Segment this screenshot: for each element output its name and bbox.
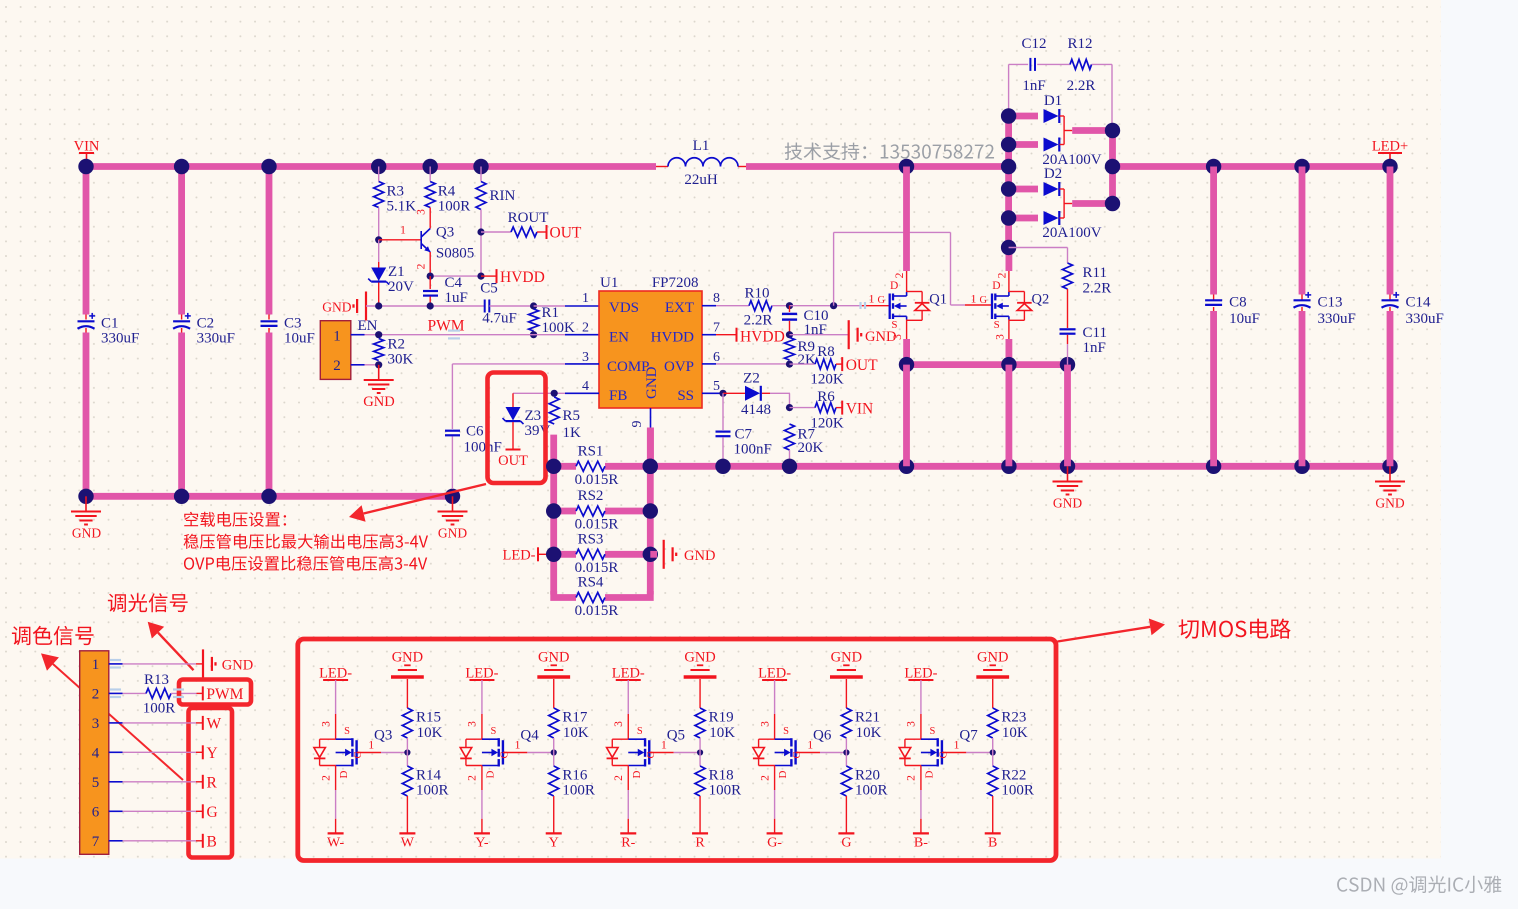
svg-text:100nF: 100nF <box>734 442 772 458</box>
junction R9-R8 node <box>786 361 793 368</box>
wire P2 pin5 stub <box>109 781 123 783</box>
svg-text:3: 3 <box>467 721 479 727</box>
svg-text:B: B <box>207 833 217 850</box>
svg-text:D: D <box>631 770 643 778</box>
junction gate node Y <box>551 749 557 755</box>
svg-text:1K: 1K <box>563 425 582 441</box>
wire pin8 EXT net <box>702 305 716 307</box>
wire Q1 drain column <box>903 167 910 272</box>
svg-text:HVDD: HVDD <box>740 329 785 346</box>
wire drain to port G- <box>774 766 776 791</box>
junction gate node B <box>990 749 996 755</box>
junction bootstrap tap <box>830 302 837 309</box>
svg-text:2.2R: 2.2R <box>744 313 773 329</box>
resistor R16 <box>549 766 559 796</box>
svg-text:GND: GND <box>977 650 1008 666</box>
svg-text:GND: GND <box>438 526 467 541</box>
diode D1 lower <box>1009 141 1038 148</box>
wire pin6 OVP net <box>702 363 716 365</box>
svg-text:2: 2 <box>416 263 428 269</box>
svg-text:D2: D2 <box>1044 166 1062 182</box>
wire Q2 source to OUT bus <box>1006 339 1013 365</box>
port G bottom <box>838 832 854 834</box>
ground GND below OUT bus column <box>1067 466 1069 481</box>
wire snubber tap <box>1008 64 1010 116</box>
ground GND below C6 node <box>452 496 454 511</box>
svg-text:2: 2 <box>613 775 625 781</box>
svg-text:R2: R2 <box>388 337 406 353</box>
port G- bottom <box>767 832 783 834</box>
junction R1-EN node <box>530 331 537 338</box>
resistor R9 <box>785 338 795 361</box>
svg-text:10uF: 10uF <box>1229 311 1260 327</box>
wire RS right column <box>647 428 654 595</box>
resistor RS1 <box>554 463 576 470</box>
svg-text:330uF: 330uF <box>197 331 235 347</box>
wire C2 column <box>178 167 185 315</box>
svg-text:L1: L1 <box>693 138 710 154</box>
wire R23 to gate node <box>992 738 994 753</box>
svg-text:GND: GND <box>222 658 253 674</box>
wire R14 to port W <box>406 796 408 833</box>
svg-text:2: 2 <box>92 687 100 703</box>
port R- bottom <box>620 832 636 834</box>
capacitor C3 <box>261 320 278 322</box>
resistor R18 <box>695 766 705 796</box>
svg-text:G: G <box>207 804 218 821</box>
svg-text:FB: FB <box>609 388 627 404</box>
svg-text:FP7208: FP7208 <box>652 275 699 291</box>
svg-text:1: 1 <box>92 657 100 673</box>
wire P2 pin5 net R <box>123 781 197 783</box>
junction C5-R1 node <box>530 302 537 309</box>
svg-text:GND: GND <box>831 650 862 666</box>
junction C4 gnd node <box>427 302 434 309</box>
wire LED- to Q6 <box>774 680 776 714</box>
junction diode right column <box>1105 123 1120 138</box>
junction C10 tap <box>786 302 793 309</box>
svg-text:R: R <box>207 774 218 791</box>
svg-text:100nF: 100nF <box>464 440 502 456</box>
annotation dimming arrow <box>158 633 194 671</box>
port W- bottom <box>328 832 344 834</box>
svg-text:RS4: RS4 <box>578 575 604 591</box>
svg-text:S: S <box>491 726 497 737</box>
resistor R7 <box>785 424 795 450</box>
resistor R15 <box>402 708 412 738</box>
selection marks near C5 <box>110 302 865 697</box>
ground GND below R2 <box>378 365 380 380</box>
svg-text:HVDD: HVDD <box>500 269 545 286</box>
svg-text:5: 5 <box>713 379 720 394</box>
transistor Q3 NMOS switch <box>314 721 364 781</box>
svg-text:120K: 120K <box>810 416 844 432</box>
wire bottom GND rail right <box>650 463 1390 470</box>
wire gate node to R20 <box>845 753 847 767</box>
svg-text:2: 2 <box>894 272 906 278</box>
svg-text:Y: Y <box>549 836 559 851</box>
wire bootstrap to Q2 gate <box>833 232 835 305</box>
capacitor C6 <box>445 430 460 432</box>
wire C14 column <box>1387 167 1394 295</box>
ground GND tap P2 pin1 <box>202 649 204 678</box>
port HVDD pin7 <box>736 328 738 342</box>
svg-text:3: 3 <box>582 350 589 365</box>
svg-text:Q5: Q5 <box>667 728 685 744</box>
port Y <box>202 745 204 759</box>
diode Z2 4148 <box>723 392 745 394</box>
svg-text:EN: EN <box>358 318 378 334</box>
svg-text:C4: C4 <box>445 275 463 291</box>
svg-text:7: 7 <box>713 321 720 336</box>
wire P2 pin1 stub <box>109 663 123 665</box>
svg-text:Q1: Q1 <box>929 292 947 308</box>
wire pin5 SS net <box>702 392 723 394</box>
junction SS node <box>719 390 726 397</box>
svg-text:100R: 100R <box>1001 783 1034 799</box>
resistor R5 <box>549 397 559 424</box>
svg-text:3: 3 <box>613 721 625 727</box>
port Y bottom <box>546 832 562 834</box>
wire P2 pin4 net Y <box>123 751 197 753</box>
resistor RS2 <box>554 508 576 515</box>
resistor R11 <box>1063 263 1073 289</box>
svg-text:Q4: Q4 <box>520 728 539 744</box>
svg-text:100R: 100R <box>709 783 742 799</box>
wire OUT bus columns down <box>903 365 910 467</box>
svg-text:GND: GND <box>684 548 715 564</box>
resistor R12 <box>1070 59 1092 69</box>
annotation qie MOS text <box>1179 618 1291 638</box>
svg-text:3: 3 <box>320 721 332 727</box>
wire gate net Q1 <box>790 305 863 307</box>
transistor Q6 NMOS switch <box>753 721 803 781</box>
junction FB-R5 node <box>551 390 558 397</box>
svg-text:3: 3 <box>416 209 428 215</box>
svg-text:2: 2 <box>996 272 1008 278</box>
port B <box>202 834 204 848</box>
junction gate node R <box>697 749 703 755</box>
svg-text:C14: C14 <box>1406 295 1432 311</box>
svg-text:GND: GND <box>1375 496 1404 511</box>
svg-text:R17: R17 <box>562 710 588 726</box>
junction diode ladder <box>1001 108 1016 123</box>
svg-text:1uF: 1uF <box>445 290 468 306</box>
port HVDD top <box>481 275 497 277</box>
junction bottom rail nodes <box>643 459 658 474</box>
wire R16 to port Y <box>553 796 555 833</box>
wire LED- to Q5 <box>627 680 629 714</box>
svg-text:100R: 100R <box>416 783 449 799</box>
svg-text:S: S <box>891 319 897 331</box>
wire P2 pin2 stub <box>109 692 123 694</box>
svg-text:OUT: OUT <box>550 225 582 242</box>
svg-text:VIN: VIN <box>846 400 874 417</box>
svg-text:1: 1 <box>400 225 406 237</box>
svg-text:D: D <box>338 770 350 778</box>
svg-text:R22: R22 <box>1001 768 1026 784</box>
transistor Q3 S0805 NPN <box>429 208 431 229</box>
transistor Q7 NMOS switch <box>899 721 949 781</box>
wire R19 to gate node <box>699 738 701 753</box>
svg-text:3: 3 <box>92 716 100 732</box>
svg-text:0.015R: 0.015R <box>575 517 619 533</box>
wire R22 to port B <box>992 796 994 833</box>
port G <box>202 804 204 818</box>
junction C10-R9 node <box>786 331 793 338</box>
wire D2 cathode to right column <box>1064 203 1072 205</box>
wire Q3 emitter to HVDD <box>430 275 481 277</box>
svg-text:LED-: LED- <box>502 548 535 564</box>
svg-text:B-: B- <box>914 836 928 851</box>
op-amp U1 FP7208 controller IC <box>599 291 702 408</box>
wire C6 column <box>451 364 453 429</box>
wire bottom-left GND rail <box>86 493 453 500</box>
svg-text:G: G <box>878 295 886 306</box>
annotation red box around PWM <box>179 680 251 705</box>
svg-text:R23: R23 <box>1001 710 1026 726</box>
capacitor C12 <box>1009 63 1029 65</box>
transistor Q2 NMOS <box>992 271 1032 340</box>
svg-text:100R: 100R <box>438 199 471 215</box>
capacitor C10 <box>789 306 791 312</box>
junction Z1 gnd node <box>375 302 382 309</box>
svg-text:2: 2 <box>759 775 771 781</box>
svg-text:Y-: Y- <box>475 836 489 851</box>
svg-text:GND: GND <box>322 300 351 315</box>
port W <box>202 716 204 730</box>
gate wire of Q4 <box>503 752 527 754</box>
junction bottom-left rail <box>78 489 93 504</box>
svg-text:S: S <box>929 726 935 737</box>
wire top rail right segment <box>1113 163 1391 170</box>
svg-text:100R: 100R <box>143 701 176 717</box>
svg-text:C6: C6 <box>466 424 484 440</box>
svg-text:7: 7 <box>92 834 100 850</box>
port B bottom <box>985 832 1001 834</box>
svg-text:8: 8 <box>713 291 720 306</box>
transistor Q4 NMOS switch <box>460 721 510 781</box>
junction OUT bus <box>899 357 914 372</box>
gate wire of Q5 <box>649 752 673 754</box>
svg-text:EXT: EXT <box>665 300 694 316</box>
svg-text:C2: C2 <box>197 316 215 332</box>
svg-text:4148: 4148 <box>741 402 771 418</box>
svg-text:RS3: RS3 <box>578 531 604 547</box>
svg-text:RS1: RS1 <box>578 443 604 459</box>
wire GND to R17 <box>553 679 555 708</box>
svg-text:C13: C13 <box>1318 295 1343 311</box>
svg-text:R6: R6 <box>817 389 835 405</box>
svg-text:R15: R15 <box>416 710 441 726</box>
resistor RS3 <box>554 551 576 558</box>
wire R15 to gate node <box>406 738 408 753</box>
annotation qie MOS arrow <box>1058 627 1151 642</box>
svg-text:0.015R: 0.015R <box>575 472 619 488</box>
svg-text:G: G <box>792 751 803 759</box>
wire RS4 bottom corners <box>554 591 576 598</box>
svg-text:2: 2 <box>320 775 332 781</box>
svg-text:G: G <box>980 295 988 306</box>
wire C1 column <box>83 167 90 315</box>
svg-text:C11: C11 <box>1083 325 1107 341</box>
svg-text:RS2: RS2 <box>578 488 604 504</box>
wire P2 pin3 net W <box>123 722 197 724</box>
wire drain to port Y- <box>481 766 483 791</box>
transistor Q5 NMOS switch <box>607 721 657 781</box>
wire C13 column <box>1299 167 1306 295</box>
svg-text:OUT: OUT <box>498 453 528 469</box>
ground GND tap right of C10 <box>848 320 850 349</box>
wire LED- to Q3 <box>335 680 337 714</box>
svg-text:Q3: Q3 <box>436 225 454 241</box>
resistor R22 <box>988 766 998 796</box>
svg-text:10K: 10K <box>563 725 589 741</box>
svg-text:C7: C7 <box>735 427 753 443</box>
connector P2 7-pin header <box>80 651 109 855</box>
wire diode right column <box>1109 131 1116 204</box>
wire R20 to port G <box>845 796 847 833</box>
junction gate node W <box>404 749 410 755</box>
resistor RIN <box>480 167 482 182</box>
annotation no-load text line1 <box>184 512 286 527</box>
gate wire of Q6 <box>796 752 820 754</box>
wire EN pin1 <box>351 334 365 336</box>
resistor ROUT and port OUT <box>481 231 511 233</box>
capacitor C2 <box>173 320 190 322</box>
svg-text:Q2: Q2 <box>1032 292 1050 308</box>
resistor R2 <box>374 339 384 361</box>
junction RS rows right <box>643 459 658 474</box>
wire LED- to Q7 <box>920 680 922 714</box>
resistor R13 <box>123 692 147 694</box>
wire R21 to gate node <box>845 738 847 753</box>
annotation red box around Z3 <box>488 373 546 484</box>
junction emitter node <box>427 273 434 280</box>
port OUT below Z3 <box>506 449 521 451</box>
svg-text:S: S <box>637 726 643 737</box>
svg-text:3: 3 <box>759 721 771 727</box>
wire diode ladder column <box>1005 116 1012 248</box>
svg-text:OVP: OVP <box>664 359 694 375</box>
svg-text:EN: EN <box>609 330 629 346</box>
annotation color arrow <box>53 664 183 780</box>
svg-text:22uH: 22uH <box>684 172 718 188</box>
wire C3 column <box>266 167 273 315</box>
svg-text:10K: 10K <box>856 725 882 741</box>
wire gate node to R14 <box>406 753 408 767</box>
wire drain to port W- <box>335 766 337 791</box>
junction gate node G <box>843 749 849 755</box>
svg-text:1nF: 1nF <box>1022 78 1045 94</box>
svg-text:GND: GND <box>684 650 715 666</box>
port R bottom <box>692 832 708 834</box>
svg-text:R13: R13 <box>144 672 169 688</box>
wire P2 pin3 stub <box>109 722 123 724</box>
svg-text:C5: C5 <box>480 281 498 297</box>
resistor R20 <box>841 766 851 796</box>
svg-text:D: D <box>992 280 1000 292</box>
svg-text:D: D <box>484 770 496 778</box>
svg-text:OUT: OUT <box>846 357 878 374</box>
svg-text:R10: R10 <box>744 286 769 302</box>
svg-text:G: G <box>499 751 510 759</box>
svg-text:R12: R12 <box>1067 36 1092 52</box>
svg-text:1: 1 <box>333 329 341 345</box>
svg-text:100R: 100R <box>562 783 595 799</box>
svg-text:GND: GND <box>1053 496 1082 511</box>
svg-text:100K: 100K <box>542 320 576 336</box>
annotation red box around WYRGB ports <box>189 708 233 858</box>
svg-text:2: 2 <box>582 321 589 336</box>
svg-text:Z2: Z2 <box>743 371 760 387</box>
capacitor C7 <box>722 393 724 430</box>
svg-text:1nF: 1nF <box>1083 340 1106 356</box>
wire drain to port B- <box>920 766 922 791</box>
wire P2 pin7 stub <box>109 840 123 842</box>
svg-text:RIN: RIN <box>490 188 516 204</box>
svg-text:10K: 10K <box>417 725 443 741</box>
wire P2 pin4 stub <box>109 751 123 753</box>
port Y- bottom <box>474 832 490 834</box>
svg-text:W: W <box>207 715 222 732</box>
svg-text:20A100V: 20A100V <box>1042 225 1101 241</box>
svg-text:U1: U1 <box>600 275 618 291</box>
wire top rail mid segment <box>746 163 1009 170</box>
svg-text:10uF: 10uF <box>284 331 315 347</box>
resistor R17 <box>549 708 559 738</box>
svg-text:C3: C3 <box>284 316 302 332</box>
svg-text:G: G <box>938 751 949 759</box>
svg-text:VDS: VDS <box>609 300 639 316</box>
wire top VIN rail left segment <box>86 163 656 170</box>
svg-text:SS: SS <box>677 388 694 404</box>
resistor R10 <box>749 301 772 311</box>
svg-text:3: 3 <box>994 334 1006 340</box>
svg-text:4: 4 <box>92 746 100 762</box>
gate wire of Q3 <box>357 752 381 754</box>
svg-text:Q6: Q6 <box>813 728 832 744</box>
svg-text:B: B <box>988 836 997 851</box>
annotation red box MOS circuits <box>298 639 1056 861</box>
svg-text:D1: D1 <box>1044 93 1062 109</box>
svg-text:Z1: Z1 <box>388 264 405 280</box>
svg-text:W: W <box>401 836 415 851</box>
svg-text:R18: R18 <box>709 768 734 784</box>
pin9 GND wire <box>650 408 652 428</box>
svg-text:G: G <box>646 751 657 759</box>
svg-text:330uF: 330uF <box>1406 311 1444 327</box>
svg-text:5.1K: 5.1K <box>387 199 417 215</box>
resistor R6 and port VIN <box>790 407 816 409</box>
junction R2 bottom node <box>375 361 382 368</box>
capacitor C11 <box>1060 328 1076 330</box>
wire GND to R21 <box>845 679 847 708</box>
wire LED- to Q4 <box>481 680 483 714</box>
wire Q2 drain stub <box>1006 248 1013 272</box>
resistor R21 <box>841 708 851 738</box>
resistor R4 <box>429 167 431 182</box>
wire GND to R15 <box>406 679 408 708</box>
wire R11 tap <box>1009 247 1068 249</box>
svg-text:R3: R3 <box>387 184 405 200</box>
svg-text:GND: GND <box>363 394 394 410</box>
svg-text:R21: R21 <box>855 710 880 726</box>
svg-text:20K: 20K <box>798 440 824 456</box>
resistor R3 <box>378 167 380 182</box>
resistor R14 <box>402 766 412 796</box>
svg-text:0.015R: 0.015R <box>575 560 619 576</box>
